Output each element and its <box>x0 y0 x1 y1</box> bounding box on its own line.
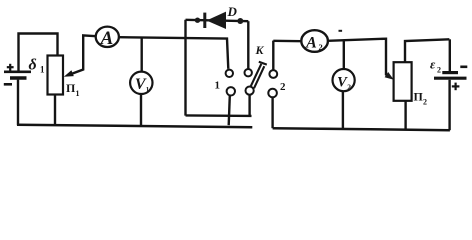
rheostat P1 slider arrowhead <box>64 70 74 77</box>
switch terminal 2 top <box>269 70 277 78</box>
svg-text:1: 1 <box>40 65 45 75</box>
rheostat P1 bottom stem <box>54 95 56 126</box>
bottom bus right loop <box>273 128 450 130</box>
label 1 <box>215 80 221 92</box>
svg-text:2: 2 <box>437 66 441 75</box>
svg-text:A: A <box>305 34 317 51</box>
label D <box>227 4 238 19</box>
voltmeter V2 <box>333 69 355 91</box>
diode branch top wire <box>186 20 249 21</box>
svg-text:П: П <box>414 90 424 104</box>
switch terminal 2 bottom <box>268 89 277 98</box>
svg-text:1: 1 <box>76 89 80 98</box>
bottom bus left loop <box>17 125 252 128</box>
wire switch middle bottom down <box>248 95 250 116</box>
diode branch left vertical (crosses main wire, down to switch link) <box>184 20 186 116</box>
svg-text:1: 1 <box>146 86 150 94</box>
P2 top stem and top-right wire to battery <box>405 39 449 62</box>
rheostat P2 box <box>394 62 412 101</box>
wire switch 2 top to right loop <box>272 41 274 71</box>
battery B1 short plate <box>10 76 27 79</box>
P2 bottom stem <box>404 101 406 130</box>
P2 slider arrowhead <box>385 72 394 80</box>
switch terminal middle top <box>245 69 252 76</box>
battery B1 minus label <box>4 83 12 86</box>
svg-text:K: K <box>255 43 265 57</box>
wire switch 2 bottom to right bus <box>271 97 273 128</box>
junction dot right of diode <box>237 18 243 24</box>
switch terminal 1 top <box>226 70 233 77</box>
label EMF2 <box>430 57 441 75</box>
right loop top wire to A2 <box>273 40 301 43</box>
voltmeter V1 bottom stem <box>140 94 142 126</box>
label 2 <box>280 81 286 93</box>
battery EMF2 top stem <box>449 39 451 71</box>
svg-text:D: D <box>227 4 238 19</box>
diode D cathode bar <box>203 13 206 28</box>
battery B1 long plate <box>4 71 31 74</box>
ammeter A2 <box>301 30 328 52</box>
voltmeter V1 <box>130 72 152 94</box>
label P1 <box>66 81 80 98</box>
voltmeter V1 top stem <box>140 38 142 72</box>
svg-text:2: 2 <box>423 98 427 107</box>
wire from diode down to switch middle top <box>247 21 249 69</box>
switch terminal middle bottom <box>246 87 254 95</box>
junction dot left of diode <box>195 18 200 23</box>
battery EMF2 bottom stem <box>448 80 450 130</box>
voltmeter V2 bottom stem <box>342 91 344 128</box>
ammeter A <box>96 27 119 47</box>
switch blade <box>251 62 267 89</box>
label P2 <box>414 90 428 107</box>
svg-text:2: 2 <box>319 42 323 52</box>
link wire to diode-left vertical <box>186 114 252 117</box>
switch terminal 1 bottom <box>227 87 235 95</box>
rheostat P1 box <box>48 56 64 95</box>
voltmeter V2 top stem <box>343 40 345 69</box>
battery B1 top stem and top wire to rheostat <box>19 34 58 71</box>
diode D triangle <box>207 12 227 29</box>
battery B1 bottom stem <box>17 80 19 126</box>
battery EMF2 minus label <box>460 66 467 69</box>
battery EMF2 short plate <box>442 71 458 74</box>
svg-text:δ: δ <box>29 57 37 74</box>
label EMF1 <box>29 57 46 75</box>
label K <box>255 43 265 57</box>
battery EMF2 long plate <box>434 77 467 80</box>
svg-text:2: 2 <box>280 81 286 93</box>
wire switch 1 bottom to bus <box>229 96 230 126</box>
scan speck <box>339 30 343 32</box>
battery EMF2 plus label <box>452 83 460 91</box>
battery B1 plus label <box>7 64 14 71</box>
svg-text:2: 2 <box>347 82 351 91</box>
svg-text:П: П <box>66 81 76 95</box>
svg-text:A: A <box>100 28 114 49</box>
svg-text:1: 1 <box>215 80 221 92</box>
rheostat P1 slider wire <box>73 35 97 73</box>
svg-text:ε: ε <box>430 57 436 72</box>
wire A2 to P2 slider corner <box>328 39 390 77</box>
main wire from A to switch corner <box>119 37 228 69</box>
